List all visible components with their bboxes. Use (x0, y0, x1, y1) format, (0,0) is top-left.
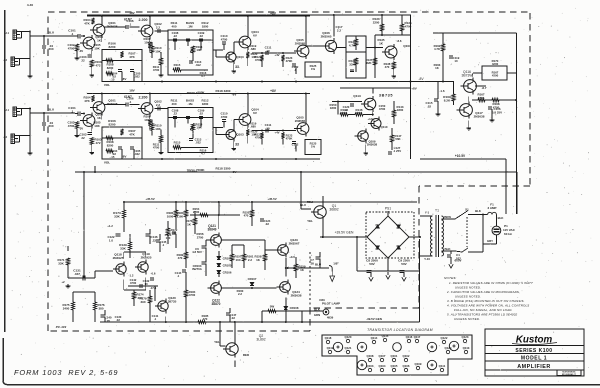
svg-text:R118 3300: R118 3300 (216, 167, 231, 171)
svg-text:10: 10 (266, 126, 270, 130)
svg-text:-17.4: -17.4 (150, 286, 157, 290)
svg-text:100: 100 (236, 258, 241, 262)
svg-text:1%: 1% (311, 67, 316, 71)
svg-text:PC-103: PC-103 (56, 325, 67, 329)
svg-text:+10.5V: +10.5V (455, 154, 466, 158)
svg-text:4700: 4700 (130, 281, 137, 285)
svg-text:2N3638: 2N3638 (291, 293, 302, 297)
svg-text:RED: RED (307, 200, 314, 204)
svg-text:BLU: BLU (48, 31, 55, 35)
svg-text:BLK: BLK (475, 209, 482, 213)
svg-text:.1M: .1M (188, 24, 193, 28)
svg-text:472: 472 (96, 141, 101, 145)
svg-text:UNLESS NOTED.: UNLESS NOTED. (455, 286, 481, 290)
svg-text:2. CAPACITOR VALUES ARE IN MIC: 2. CAPACITOR VALUES ARE IN MICROFARADS, (446, 290, 520, 294)
svg-text:-8.6: -8.6 (397, 39, 402, 43)
svg-text:4.7: 4.7 (201, 152, 205, 156)
svg-text:Y-10: Y-10 (424, 257, 430, 261)
svg-text:-.15: -.15 (110, 155, 115, 159)
svg-text:Q121: Q121 (345, 346, 352, 350)
svg-text:CR105: CR105 (223, 264, 232, 268)
svg-text:BRN: BRN (444, 215, 450, 219)
svg-text:.05: .05 (310, 261, 314, 265)
svg-text:CR108: CR108 (290, 306, 299, 310)
svg-text:-1.6: -1.6 (439, 89, 444, 93)
svg-text:38735: 38735 (168, 299, 177, 303)
svg-text:+35.5V: +35.5V (267, 197, 276, 201)
svg-text:2200: 2200 (373, 20, 380, 24)
svg-text:PILOT LAMP: PILOT LAMP (322, 302, 340, 306)
svg-text:1/8″: 1/8″ (333, 262, 339, 266)
svg-text:220: 220 (175, 66, 180, 70)
svg-text:33K: 33K (58, 261, 64, 265)
svg-text:.02: .02 (427, 104, 431, 108)
svg-text:8200: 8200 (107, 66, 114, 70)
svg-text:472: 472 (96, 63, 101, 67)
svg-text:.1: .1 (71, 109, 74, 113)
svg-text:2.2: 2.2 (337, 28, 341, 32)
svg-text:2.2: 2.2 (248, 258, 252, 262)
svg-text:10K: 10K (94, 124, 100, 128)
svg-text:RED: RED (243, 353, 250, 357)
svg-text:Q109: Q109 (415, 362, 422, 366)
svg-text:Q118: Q118 (325, 336, 332, 340)
svg-text:YEL: YEL (307, 219, 313, 223)
svg-text:J-2: J-2 (3, 136, 7, 139)
svg-text:+4V: +4V (274, 131, 279, 135)
svg-text:1.8K: 1.8K (177, 214, 184, 218)
svg-text:1.0: 1.0 (109, 238, 113, 242)
svg-text:.1: .1 (177, 274, 180, 278)
svg-text:4839: 4839 (327, 316, 334, 320)
svg-text:1800: 1800 (397, 108, 404, 112)
svg-text:8200: 8200 (107, 143, 114, 147)
svg-text:TREBLE: TREBLE (187, 91, 198, 95)
svg-text:2N3565: 2N3565 (321, 34, 332, 38)
svg-text:47K: 47K (129, 132, 135, 136)
svg-text:Q103: Q103 (236, 133, 244, 137)
svg-text:4.7: 4.7 (201, 74, 205, 78)
svg-text:3 AMP: 3 AMP (488, 206, 497, 210)
svg-text:Q114: Q114 (371, 336, 378, 340)
svg-text:4-40: 4-40 (27, 3, 33, 7)
svg-text:IN270A: IN270A (192, 267, 202, 271)
svg-text:2N3567: 2N3567 (289, 241, 300, 245)
svg-text:56K: 56K (395, 137, 401, 141)
svg-text:Q107: Q107 (379, 354, 386, 358)
svg-text:+8V: +8V (411, 87, 416, 91)
svg-text:.02: .02 (199, 34, 203, 38)
svg-text:8.2K: 8.2K (444, 98, 451, 102)
svg-text:Q106: Q106 (403, 364, 410, 368)
svg-text:10: 10 (266, 49, 270, 53)
svg-text:+8V: +8V (270, 89, 277, 93)
svg-text:.022: .022 (134, 75, 140, 79)
svg-text:400: 400 (172, 102, 177, 106)
svg-text:390: 390 (141, 300, 146, 304)
svg-text:+0.6: +0.6 (289, 255, 295, 259)
svg-text:3B73W: 3B73W (462, 74, 474, 78)
svg-text:.680: .680 (250, 125, 256, 129)
svg-text:TRANSISTOR LOCATION DIAGRAM: TRANSISTOR LOCATION DIAGRAM (367, 328, 433, 332)
svg-text:380: 380 (99, 306, 104, 310)
svg-text:10K: 10K (155, 49, 161, 53)
svg-text:Q108: Q108 (367, 354, 374, 358)
svg-text:.22: .22 (173, 34, 177, 38)
svg-text:4700: 4700 (478, 96, 485, 100)
svg-text:2700: 2700 (197, 235, 204, 239)
svg-text:-8V: -8V (418, 77, 424, 81)
svg-text:.1: .1 (71, 32, 74, 36)
svg-text:4700: 4700 (221, 115, 228, 119)
svg-text:3L892: 3L892 (256, 338, 265, 342)
svg-text:2.200: 2.200 (139, 18, 148, 22)
svg-text:PS1: PS1 (385, 207, 391, 211)
svg-text:10: 10 (454, 59, 458, 63)
svg-text:.1: .1 (154, 317, 157, 321)
svg-text:+4.8: +4.8 (367, 117, 373, 121)
svg-text:8200: 8200 (109, 45, 116, 49)
svg-text:600V: 600V (455, 259, 462, 263)
svg-text:+2: +2 (61, 280, 65, 284)
svg-text:1800: 1800 (202, 102, 209, 106)
svg-text:47K: 47K (129, 55, 135, 59)
svg-text:6.8 25V: 6.8 25V (492, 110, 502, 114)
svg-text:R118 3300: R118 3300 (216, 89, 231, 93)
svg-text:+39.5V GEN: +39.5V GEN (335, 231, 354, 235)
svg-text:J-1: J-1 (5, 32, 9, 35)
svg-text:36892: 36892 (329, 208, 338, 212)
svg-text:+35.5V: +35.5V (145, 197, 154, 201)
svg-text:Q116: Q116 (406, 335, 413, 339)
svg-text:Q104: Q104 (379, 364, 386, 368)
svg-text:NOTES:: NOTES: (444, 276, 457, 280)
svg-text:.02: .02 (265, 222, 269, 226)
svg-text:18V: 18V (129, 11, 135, 15)
svg-text:470K: 470K (286, 137, 294, 141)
svg-text:.02: .02 (231, 316, 235, 320)
svg-text:470: 470 (244, 214, 249, 218)
svg-text:GRY: GRY (487, 239, 493, 243)
svg-text:Q123: Q123 (462, 335, 469, 339)
svg-text:5. ALL TRANSISTORS ARE PT3566: 5. ALL TRANSISTORS ARE PT3566 LD 5E4002 (447, 313, 518, 317)
svg-text:4700: 4700 (153, 68, 160, 72)
svg-text:Q110: Q110 (463, 346, 470, 350)
svg-text:22: 22 (81, 58, 85, 62)
svg-text:J-1: J-1 (5, 109, 9, 112)
svg-text:1000: 1000 (167, 214, 174, 218)
svg-text:Q117: Q117 (414, 335, 421, 339)
svg-text:38870: 38870 (212, 302, 221, 306)
svg-text:33: 33 (235, 65, 239, 69)
svg-text:38849: 38849 (208, 228, 217, 232)
svg-text:2N3638: 2N3638 (367, 143, 378, 147)
svg-text:Q110: Q110 (381, 125, 388, 129)
svg-text:33K: 33K (349, 62, 355, 66)
svg-text:FORM 1003 REV 2, 5-69: FORM 1003 REV 2, 5-69 (14, 368, 118, 377)
svg-text:2N3638: 2N3638 (107, 102, 118, 106)
svg-text:SERIES K100: SERIES K100 (515, 348, 552, 354)
svg-text:4200: 4200 (492, 74, 499, 78)
svg-text:J-2: J-2 (3, 59, 7, 62)
svg-text:4.7K: 4.7K (434, 47, 441, 51)
svg-text:CR107: CR107 (248, 277, 257, 281)
svg-text:BLK: BLK (498, 216, 505, 220)
svg-text:470: 470 (385, 65, 390, 69)
svg-text:Q120: Q120 (345, 335, 352, 339)
svg-text:2N2925: 2N2925 (113, 256, 124, 260)
svg-text:BLU: BLU (48, 108, 55, 112)
svg-text:60 Hz: 60 Hz (504, 232, 512, 236)
svg-text:-0.6: -0.6 (151, 272, 156, 276)
svg-text:4700: 4700 (221, 37, 228, 41)
svg-text:10K: 10K (94, 46, 100, 50)
svg-text:-1.2: -1.2 (129, 274, 134, 278)
svg-text:33: 33 (235, 143, 239, 147)
svg-text:.1: .1 (129, 100, 132, 104)
svg-text:470: 470 (178, 256, 183, 260)
svg-text:Q103: Q103 (367, 364, 374, 368)
svg-text:600: 600 (49, 47, 54, 51)
svg-text:1800: 1800 (202, 24, 209, 28)
svg-text:50V: 50V (401, 262, 407, 266)
svg-text:.22: .22 (173, 112, 177, 116)
svg-text:400: 400 (172, 24, 177, 28)
svg-text:Q115: Q115 (382, 334, 389, 338)
svg-text:4.7K: 4.7K (349, 43, 356, 47)
svg-text:AMPLIFIER: AMPLIFIER (517, 364, 551, 370)
svg-text:Q103: Q103 (236, 55, 244, 59)
svg-text:4700: 4700 (379, 107, 386, 111)
svg-text:3. B RIDGE (PS1) MOUNTED IN OU: 3. B RIDGE (PS1) MOUNTED IN OUT ON CHASS… (447, 299, 525, 303)
svg-text:Q122: Q122 (441, 336, 448, 340)
svg-text:33K: 33K (114, 214, 120, 218)
svg-text:BLK: BLK (444, 247, 451, 251)
svg-text:.1 25V: .1 25V (393, 149, 401, 153)
svg-text:Y-1: Y-1 (425, 211, 430, 215)
svg-text:.02: .02 (199, 112, 203, 116)
svg-text:MODEL 1: MODEL 1 (521, 355, 547, 361)
svg-text:.680: .680 (250, 47, 256, 51)
svg-text:VOL: VOL (104, 83, 110, 87)
svg-text:-8.7: -8.7 (481, 86, 486, 90)
svg-text:.022: .022 (195, 141, 201, 145)
svg-text:2700: 2700 (193, 210, 200, 214)
svg-text:Q111: Q111 (439, 364, 446, 368)
svg-text:Q124: Q124 (445, 346, 452, 350)
svg-text:4200: 4200 (492, 62, 499, 66)
svg-text:+4V: +4V (274, 53, 279, 57)
svg-text:22: 22 (81, 136, 85, 140)
svg-text:4700: 4700 (68, 124, 75, 128)
svg-text:FULL-ON, NO SIGNAL, AND NO LOA: FULL-ON, NO SIGNAL, AND NO LOAD. (454, 308, 513, 312)
svg-text:4.8 50V: 4.8 50V (192, 250, 202, 254)
svg-text:8200: 8200 (109, 122, 116, 126)
svg-text:Q102: Q102 (403, 354, 410, 358)
svg-text:CR106: CR106 (223, 271, 232, 275)
svg-text:2.200: 2.200 (139, 96, 148, 100)
svg-text:500K: 500K (197, 168, 205, 172)
svg-text:2N3638: 2N3638 (107, 24, 118, 28)
svg-text:GRN: GRN (314, 313, 320, 317)
svg-text:Q113: Q113 (353, 94, 361, 98)
svg-text:YEL: YEL (214, 340, 220, 344)
svg-text:-39.5V GEN: -39.5V GEN (366, 317, 382, 321)
svg-text:.047: .047 (74, 272, 80, 276)
svg-text:3B735: 3B735 (379, 94, 393, 98)
svg-text:.022: .022 (134, 152, 140, 156)
svg-text:+1.2: +1.2 (107, 224, 113, 228)
svg-text:2.2: 2.2 (156, 25, 160, 29)
svg-text:Q107: Q107 (403, 44, 411, 48)
svg-text:5W: 5W (270, 305, 275, 309)
svg-text:1. RESISTOR VALUES ARE IN OHMS: 1. RESISTOR VALUES ARE IN OHMS (K=1000) … (449, 281, 533, 285)
svg-text:2N3565: 2N3565 (295, 41, 306, 45)
svg-text:6V: 6V (253, 111, 257, 115)
svg-text:-.15: -.15 (110, 78, 115, 82)
svg-text:1800: 1800 (330, 106, 337, 110)
svg-text:10K: 10K (155, 127, 161, 131)
svg-text:-3V: -3V (79, 127, 84, 131)
svg-text:T1: T1 (435, 209, 439, 213)
svg-text:6V: 6V (253, 33, 257, 37)
svg-text:2.2: 2.2 (238, 292, 242, 296)
svg-text:600: 600 (49, 124, 54, 128)
svg-text:10: 10 (144, 282, 148, 286)
svg-text:470K: 470K (286, 59, 294, 63)
svg-text:Q119: Q119 (327, 346, 334, 350)
svg-text:2N3565: 2N3565 (295, 119, 306, 123)
svg-text:2.2: 2.2 (156, 103, 160, 107)
svg-text:1%: 1% (311, 145, 316, 149)
svg-text:4700: 4700 (68, 46, 75, 50)
svg-text:47K: 47K (84, 99, 90, 103)
svg-text:Q101: Q101 (391, 354, 398, 358)
svg-text:.022: .022 (195, 63, 201, 67)
svg-text:.1: .1 (162, 243, 165, 247)
svg-text:UNLESS NOTED.: UNLESS NOTED. (454, 317, 480, 321)
svg-text:VOL: VOL (104, 161, 110, 165)
svg-text:2N3638: 2N3638 (474, 114, 485, 118)
svg-text:33K: 33K (120, 246, 126, 250)
svg-text:4700: 4700 (153, 146, 160, 150)
svg-text:4700: 4700 (189, 293, 196, 297)
svg-text:4. VOLTAGES ARE WITH POWER ON,: 4. VOLTAGES ARE WITH POWER ON, ALL CONTR… (447, 304, 529, 308)
svg-text:470: 470 (203, 317, 208, 321)
svg-text:UNLESS NOTED.: UNLESS NOTED. (455, 295, 481, 299)
svg-text:MFG KANSAS CY: MFG KANSAS CY (562, 373, 577, 376)
svg-text:-3V: -3V (79, 49, 84, 53)
svg-text:220: 220 (175, 144, 180, 148)
svg-text:BLU: BLU (300, 203, 306, 207)
svg-text:47K: 47K (84, 21, 90, 25)
svg-text:.1: .1 (129, 22, 132, 26)
svg-text:Q105: Q105 (391, 364, 398, 368)
svg-text:4700: 4700 (356, 111, 363, 115)
svg-text:18V: 18V (129, 89, 135, 93)
